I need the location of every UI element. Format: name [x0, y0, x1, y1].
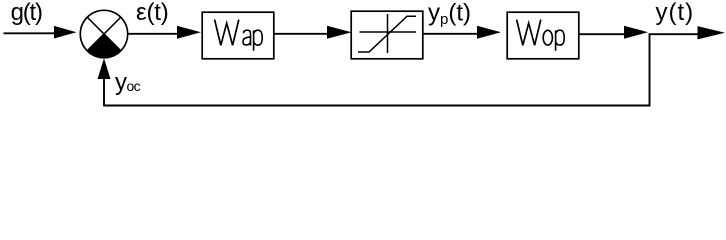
svg-text:y(t): y(t) [656, 0, 695, 26]
arrowhead into summer bottom [98, 58, 111, 79]
svg-text:yp(t): yp(t) [428, 0, 471, 28]
arrowhead into Wop [477, 26, 501, 39]
saturation vertical axis [387, 14, 389, 53]
summing junction filled bottom sector [87, 34, 121, 58]
arrowhead output [698, 26, 726, 39]
label Wap: a [243, 30, 251, 45]
block Wap [202, 12, 274, 59]
wire: input g(t) [4, 32, 61, 34]
wire: junction to output [649, 33, 703, 35]
wire: Wop to output junction [580, 33, 627, 35]
label Wop: o [543, 30, 552, 45]
wire: feedback vertical left [103, 74, 105, 106]
wire: feedback bottom [104, 105, 650, 107]
arrowhead into junction [624, 26, 648, 39]
wire: saturation to Wop [424, 33, 485, 35]
label Wap: p [254, 30, 263, 51]
block Wop [507, 12, 579, 59]
label Wop: W [517, 20, 541, 46]
arrowhead into Wap [177, 26, 201, 39]
svg-text:g(t): g(t) [11, 0, 42, 26]
wire: feedback vertical right [649, 34, 651, 105]
saturation horizontal axis [360, 31, 417, 33]
arrowhead into summer [54, 26, 77, 39]
wire: summer to Wap [128, 33, 180, 35]
block saturation nonlinearity [351, 11, 423, 59]
svg-text:ε(t): ε(t) [136, 0, 169, 26]
summing junction cross diagonal 2 [87, 17, 121, 51]
label Wap: W [215, 20, 239, 46]
arrowhead into saturation [327, 26, 352, 39]
wire: Wap to saturation [275, 33, 329, 35]
summing junction circle [80, 10, 127, 57]
label Wop: p [556, 30, 565, 51]
summing junction cross diagonal 1 [87, 17, 121, 51]
saturation curve [358, 16, 416, 52]
